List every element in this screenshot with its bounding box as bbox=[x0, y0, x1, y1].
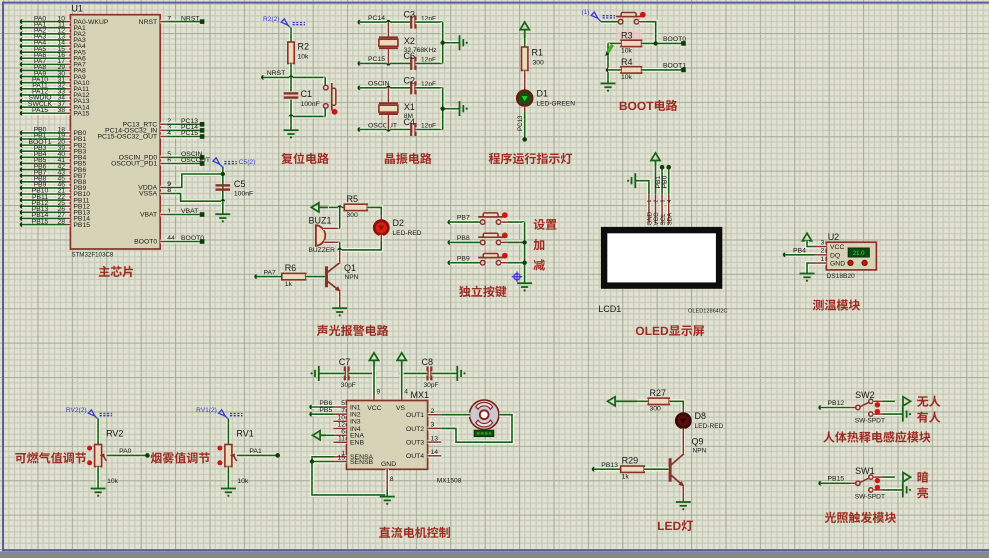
capacitor C3 bbox=[410, 16, 412, 29]
wire PB6 to IN1 bbox=[312, 405, 334, 409]
MX1 pin 3 (OUT2) bbox=[428, 427, 442, 431]
sensor U2 DS18B20 body bbox=[826, 242, 876, 270]
capacitor C5 bbox=[216, 184, 231, 186]
ground under U2 bbox=[800, 274, 815, 282]
svg-text:RV2: RV2 bbox=[106, 429, 123, 439]
svg-text:IN3: IN3 bbox=[350, 419, 361, 426]
svg-text:DQ: DQ bbox=[830, 252, 840, 259]
wire SW2 upper throw to power bbox=[873, 399, 883, 403]
node OSCOUT terminal bbox=[358, 127, 363, 132]
wire VSSA to C5 bottom bbox=[166, 194, 223, 202]
svg-text:BOOT0: BOOT0 bbox=[663, 36, 686, 43]
power arrow ENA bbox=[313, 431, 327, 440]
wire button 加 to bus bbox=[501, 241, 508, 245]
svg-text:VCC: VCC bbox=[367, 405, 381, 412]
power arrow VS bbox=[397, 353, 406, 367]
svg-text:OUT1: OUT1 bbox=[406, 412, 424, 419]
svg-text:PB15: PB15 bbox=[32, 218, 49, 225]
svg-text:RV1: RV1 bbox=[236, 429, 253, 439]
U1 pin 7 (NRST) bbox=[160, 20, 166, 24]
svg-text:R5: R5 bbox=[347, 194, 359, 204]
label reset circuit title bbox=[281, 153, 292, 164]
crystal X1 bbox=[387, 88, 391, 103]
wire power to R5 bbox=[329, 205, 344, 209]
U1 pin 41 (PB5) wire bbox=[20, 161, 25, 166]
svg-text:BUZ1: BUZ1 bbox=[309, 215, 332, 225]
potentiometer RV2 bbox=[95, 445, 102, 467]
svg-text:1: 1 bbox=[647, 200, 653, 203]
node PA7 terminal bbox=[254, 274, 259, 279]
node NRST horizontal wire bbox=[261, 75, 266, 80]
svg-text:PA1: PA1 bbox=[249, 448, 262, 455]
svg-text:Q9: Q9 bbox=[692, 437, 704, 447]
U1 pin 39 (PB3) wire bbox=[20, 149, 25, 154]
svg-text:D2: D2 bbox=[393, 218, 405, 228]
MX1 pin 8 GND bbox=[385, 469, 389, 489]
svg-text:C8: C8 bbox=[422, 357, 434, 367]
wire RV2 wiper to PA0 bbox=[107, 453, 148, 457]
U1 pin 38 (PA15) wire bbox=[20, 111, 25, 116]
U2 buttons bbox=[848, 260, 853, 265]
svg-text:OUT4: OUT4 bbox=[406, 453, 424, 460]
svg-text:R2: R2 bbox=[298, 42, 310, 52]
wire RV2 to ground bbox=[96, 467, 100, 489]
label 减 bbox=[533, 259, 544, 270]
label temperature title bbox=[813, 299, 824, 310]
U1 pin 22 (PB11) wire bbox=[20, 198, 25, 203]
U1 pin 29 (PA8) wire bbox=[20, 68, 25, 73]
svg-text:NRST: NRST bbox=[139, 19, 158, 26]
wire probe to RV2 bbox=[96, 419, 100, 445]
svg-text:OUT3: OUT3 bbox=[406, 440, 424, 447]
svg-text:8: 8 bbox=[167, 187, 171, 194]
diode D8 LED-RED off bbox=[681, 407, 685, 413]
svg-text:D1: D1 bbox=[537, 89, 549, 99]
MX1 pin 11 (ENB) bbox=[334, 440, 347, 444]
svg-text:VSSA: VSSA bbox=[139, 191, 158, 198]
wire D8 to Q9 collector bbox=[681, 429, 685, 454]
MX1 pin 2 (OUT1) bbox=[428, 413, 442, 417]
svg-text:300: 300 bbox=[533, 60, 545, 67]
wire SCL to PB1 terminal bbox=[660, 167, 664, 194]
wire buzzer top pin bbox=[323, 227, 340, 231]
wire R4 left bbox=[606, 43, 610, 83]
ground under Q1 bbox=[332, 308, 347, 316]
svg-text:SW-SPDT: SW-SPDT bbox=[855, 418, 885, 425]
svg-text:MX1508: MX1508 bbox=[437, 478, 462, 485]
label alarm circuit title bbox=[317, 325, 328, 336]
svg-text:BUZZER: BUZZER bbox=[309, 247, 336, 254]
wire PC15 row bbox=[360, 61, 411, 65]
MX1 pin 12 (IN4) bbox=[334, 427, 347, 431]
svg-text:10k: 10k bbox=[107, 478, 119, 485]
wire PB9 to button bbox=[450, 261, 480, 265]
svg-text:LED-RED: LED-RED bbox=[393, 230, 422, 237]
ground under RV1 bbox=[221, 489, 236, 497]
power arrow above U2 bbox=[802, 233, 811, 246]
svg-text:GND: GND bbox=[830, 261, 845, 268]
switch SW1 toggle dots bbox=[875, 478, 880, 483]
capacitor C4 bbox=[410, 123, 412, 136]
svg-text:LCD1: LCD1 bbox=[598, 304, 621, 314]
transistor Q9 bbox=[669, 458, 672, 482]
svg-text:C7: C7 bbox=[339, 357, 351, 367]
wire PB8 to button bbox=[450, 240, 480, 244]
svg-text:OUT2: OUT2 bbox=[406, 426, 424, 433]
wire PB13 to R29 bbox=[594, 467, 621, 471]
svg-text:STM32F103C8: STM32F103C8 bbox=[71, 251, 114, 258]
svg-text:PC15-OSC32_OUT: PC15-OSC32_OUT bbox=[98, 134, 158, 141]
reset push button bbox=[323, 77, 327, 85]
wire probe to boot button bbox=[601, 20, 618, 24]
crystal X2 bbox=[387, 22, 391, 36]
wire SDA to PB0 terminal bbox=[667, 167, 671, 194]
svg-text:NPN: NPN bbox=[345, 274, 359, 281]
svg-text:C5: C5 bbox=[234, 179, 246, 189]
wire button 减 to bus bbox=[501, 261, 508, 265]
U1 pin 3 (PC14-OSC32_IN) bbox=[160, 129, 166, 133]
svg-text:BOOT0: BOOT0 bbox=[134, 239, 157, 246]
wire VCC vertical bbox=[372, 367, 376, 396]
svg-text:10k: 10k bbox=[621, 74, 633, 81]
wire OUT2 motor loop bbox=[441, 415, 512, 443]
svg-text:1k: 1k bbox=[622, 474, 630, 481]
U2 pin 2 DQ bbox=[814, 253, 826, 257]
ground right of X1 bbox=[460, 101, 468, 116]
svg-text:ENA: ENA bbox=[350, 433, 364, 440]
wire PB15 to pole bbox=[821, 481, 849, 485]
MX1 pin 13 (OUT3) bbox=[428, 440, 442, 444]
ground left of LCD1 bbox=[627, 173, 635, 188]
U1 pin 27 (PB14) wire bbox=[20, 216, 25, 221]
U1 pin 44 (BOOT0) bbox=[160, 240, 166, 244]
svg-text:U2: U2 bbox=[828, 232, 840, 242]
svg-text:30pF: 30pF bbox=[341, 382, 356, 389]
svg-text:OSCOUT_PD1: OSCOUT_PD1 bbox=[111, 161, 157, 168]
motor label tag bbox=[474, 430, 494, 436]
voltage probe RV1(2) bbox=[219, 410, 243, 420]
MX1 pin 5 (IN1) bbox=[334, 405, 347, 409]
U1 pin 37 (SWCLK) wire bbox=[20, 105, 25, 110]
power arrow right SW2 bbox=[903, 397, 911, 406]
voltage probe (1) bbox=[591, 12, 615, 22]
power arrow VCC bbox=[369, 353, 378, 367]
U1 pin 4 (PC15-OSC32_OUT) bbox=[160, 135, 166, 139]
LCD1 pin 1 (GND) bbox=[647, 194, 651, 223]
svg-text:IN2: IN2 bbox=[350, 412, 361, 419]
svg-text:8M: 8M bbox=[404, 113, 413, 120]
node PB8 terminal bbox=[448, 240, 453, 245]
svg-text:R6: R6 bbox=[285, 263, 297, 273]
ground under MX1 bbox=[380, 497, 395, 505]
power arrow above VCC bbox=[651, 153, 660, 166]
svg-text:3: 3 bbox=[821, 239, 825, 246]
label SW1 title bbox=[825, 512, 836, 523]
label 设置 bbox=[534, 219, 545, 230]
wire BOOT1 net bbox=[642, 68, 684, 72]
svg-text:1: 1 bbox=[821, 256, 825, 263]
wire D1 to PC13 terminal bbox=[523, 107, 527, 112]
svg-text:C2: C2 bbox=[404, 75, 416, 85]
svg-text:2: 2 bbox=[821, 248, 825, 255]
svg-text:9: 9 bbox=[377, 389, 381, 396]
wire RV1 wiper to PA1 bbox=[237, 453, 278, 457]
node PB4 terminal bbox=[783, 253, 788, 258]
node PB12 terminal bbox=[818, 405, 823, 410]
label OLED title bbox=[636, 327, 644, 335]
wire to ground X2 bbox=[443, 41, 460, 45]
wire button 设置 to bus bbox=[501, 220, 508, 224]
U1 pin 20 (BOOT1) wire bbox=[20, 143, 25, 148]
wire SENSA SENSB to ground bbox=[312, 457, 387, 495]
svg-text:PB15: PB15 bbox=[73, 222, 90, 229]
ground left of C7 bbox=[311, 366, 319, 381]
node PB5 terminal bbox=[309, 412, 314, 417]
U1 pin 26 (PB13) wire bbox=[20, 210, 25, 215]
capacitor C2 bbox=[410, 81, 412, 94]
svg-text:DS18B20: DS18B20 bbox=[827, 273, 856, 280]
svg-text:X1: X1 bbox=[404, 102, 415, 112]
svg-text:2: 2 bbox=[654, 200, 660, 203]
U1 pin 32 (PA11) wire bbox=[20, 87, 25, 92]
power arrow left of R27 bbox=[608, 397, 638, 406]
switch SW2 toggle dots bbox=[875, 402, 880, 407]
wire PC14 row bbox=[360, 20, 411, 24]
svg-text:PA15: PA15 bbox=[73, 110, 89, 117]
wire C5 to ground bbox=[221, 201, 225, 214]
wire PB5 to IN2 bbox=[312, 412, 334, 416]
label pot title bbox=[151, 452, 162, 463]
U1 pin 2 (PC13_RTC) bbox=[160, 122, 166, 126]
svg-text:4: 4 bbox=[667, 200, 673, 203]
svg-text:R27: R27 bbox=[650, 388, 667, 398]
U1 pin 12 (PA2) wire bbox=[20, 32, 25, 37]
wire SW2 lower throw to ground bbox=[873, 412, 883, 416]
svg-text:LED-RED: LED-RED bbox=[695, 423, 724, 430]
svg-text:X2: X2 bbox=[404, 36, 415, 46]
switch SW1 lever and contacts bbox=[856, 475, 873, 492]
svg-text:BOOT1: BOOT1 bbox=[663, 62, 686, 69]
MX1 pin 10 (IN3) bbox=[334, 419, 347, 423]
diode D2 LED-RED bbox=[379, 215, 383, 221]
U1 pin 21 (PB10) wire bbox=[20, 192, 25, 197]
MX1 pin 6 (ENA) bbox=[334, 433, 347, 437]
svg-text:VS: VS bbox=[396, 405, 406, 412]
motor M1 bbox=[466, 413, 470, 417]
ground BOOT divider bbox=[601, 83, 616, 91]
svg-text:PA15: PA15 bbox=[32, 107, 48, 114]
U1 pin 42 (PB6) wire bbox=[20, 167, 25, 172]
ground right of X2 bbox=[460, 35, 468, 50]
wire RV1 to ground bbox=[226, 467, 230, 489]
U1 pin 25 (PB12) wire bbox=[20, 204, 25, 209]
svg-text:GND: GND bbox=[381, 461, 396, 468]
svg-text:10: 10 bbox=[337, 415, 345, 422]
power arrow left of R5 bbox=[311, 203, 328, 212]
svg-text:14: 14 bbox=[431, 449, 439, 456]
svg-text:VBAT: VBAT bbox=[140, 212, 157, 219]
U1 pin 40 (PB4) wire bbox=[20, 155, 25, 160]
wire PA7 to R6 bbox=[257, 275, 282, 279]
svg-text:C5(2): C5(2) bbox=[239, 159, 256, 166]
svg-text:2: 2 bbox=[431, 408, 435, 415]
wire BOOT0 net bbox=[642, 41, 684, 45]
node PB13 terminal bbox=[592, 467, 597, 472]
resistor R2 bbox=[288, 42, 294, 64]
svg-text:NRST: NRST bbox=[181, 15, 200, 22]
U1 pin 33 (PA12) wire bbox=[20, 93, 25, 98]
U1 pin 10 (PA0) wire bbox=[20, 19, 25, 24]
svg-text:PC15: PC15 bbox=[181, 130, 198, 137]
U1 pin 34 (SWDIO) wire bbox=[20, 99, 25, 104]
wire power to R1 bbox=[523, 38, 527, 47]
wire C8 to VS node bbox=[402, 371, 428, 375]
wire C7 left to ground bbox=[319, 371, 345, 375]
svg-text:Q1: Q1 bbox=[344, 263, 356, 273]
capacitor C1 bbox=[289, 77, 293, 91]
wire OSCOUT row bbox=[360, 128, 411, 132]
U2 display 21.0 bbox=[848, 248, 869, 257]
wire R5 to D2 bbox=[367, 207, 381, 214]
potentiometer RV1 bbox=[225, 445, 232, 467]
svg-text:30pF: 30pF bbox=[424, 382, 439, 389]
svg-text:7: 7 bbox=[341, 407, 345, 414]
label motor control title bbox=[379, 527, 390, 538]
U1 pin 15 (PA5) wire bbox=[20, 50, 25, 55]
U1 pin 31 (PA10) wire bbox=[20, 80, 25, 85]
label 亮 bbox=[917, 487, 928, 498]
wire PB12 to pole bbox=[821, 406, 849, 410]
wire SW1 upper throw to power bbox=[873, 475, 883, 479]
svg-text:MX1: MX1 bbox=[411, 390, 430, 400]
U1 pin 19 (PB1) wire bbox=[20, 137, 25, 142]
label buttons title bbox=[459, 286, 470, 297]
wire right vertical X1 bbox=[441, 88, 445, 130]
MX1 pin 1 (SENSA) bbox=[334, 455, 347, 459]
svg-text:SDA: SDA bbox=[666, 212, 673, 226]
wire buzzer bottom pin bbox=[324, 240, 340, 244]
svg-text:300: 300 bbox=[650, 405, 662, 412]
svg-text:6: 6 bbox=[341, 429, 345, 436]
svg-text:R1: R1 bbox=[532, 48, 544, 58]
MX1 pin 4 VS bbox=[400, 395, 404, 401]
U1 pin 6 (OSCOUT_PD1) bbox=[160, 162, 166, 166]
svg-text:SENSB: SENSB bbox=[350, 459, 374, 466]
wire PB7 to button bbox=[450, 220, 480, 224]
op-amp U1 microcontroller STM32F103C8 body bbox=[70, 15, 160, 249]
wire R1 to D1 bbox=[523, 71, 527, 91]
wire VCC pin to power bbox=[654, 161, 658, 194]
svg-text:21.0: 21.0 bbox=[853, 251, 865, 257]
svg-text:SW-SPDT: SW-SPDT bbox=[855, 493, 885, 500]
ground buttons bus bbox=[517, 283, 532, 291]
label pot title bbox=[15, 453, 26, 463]
push button 减 bbox=[478, 254, 503, 266]
ground under Q9 bbox=[676, 502, 691, 510]
U1 pin 16 (PA6) wire bbox=[20, 56, 25, 61]
svg-text:100nF: 100nF bbox=[234, 191, 253, 198]
wire power to VCC bbox=[807, 241, 814, 247]
svg-text:(1): (1) bbox=[581, 9, 589, 16]
voltage probe C5(2) bbox=[213, 158, 237, 168]
svg-text:4: 4 bbox=[404, 389, 408, 396]
label indicator title bbox=[489, 153, 500, 164]
svg-text:U1: U1 bbox=[71, 4, 83, 14]
ground under C5 bbox=[215, 214, 230, 222]
U1 pin 43 (PB7) wire bbox=[20, 173, 25, 178]
boot push button bbox=[616, 13, 641, 25]
highlight box R3 bbox=[617, 30, 643, 48]
voltage probe R2(2) bbox=[281, 19, 305, 29]
push button 加 bbox=[478, 233, 503, 245]
svg-text:10k: 10k bbox=[298, 54, 310, 61]
wire PB4 to DQ bbox=[785, 253, 814, 257]
svg-text:OSCOUT: OSCOUT bbox=[181, 157, 210, 164]
wire OUT1 to motor bbox=[441, 413, 470, 417]
wire R29 to Q9 base bbox=[644, 467, 669, 471]
ground right of C8 bbox=[457, 366, 465, 381]
voltage probe RV2(2) bbox=[88, 410, 112, 420]
wire OSCIN row bbox=[360, 86, 411, 90]
U1 pin 8 (VSSA) bbox=[160, 192, 166, 196]
U1 pin 9 (VDDA) bbox=[160, 186, 166, 190]
svg-text:5: 5 bbox=[341, 400, 345, 407]
label SW2 title bbox=[823, 431, 834, 442]
svg-text:28: 28 bbox=[57, 218, 65, 225]
U1 pin 11 (PA1) wire bbox=[20, 25, 25, 30]
label BOOT circuit title bbox=[620, 102, 627, 110]
svg-text:32.768KHz: 32.768KHz bbox=[404, 47, 437, 54]
U1 pin 13 (PA3) wire bbox=[20, 38, 25, 43]
svg-text:13: 13 bbox=[431, 435, 439, 442]
svg-text:10k: 10k bbox=[621, 47, 633, 54]
LCD1 pin 2 (VCC) bbox=[654, 194, 658, 223]
wire R2 to NRST node bbox=[289, 64, 293, 78]
label 暗 bbox=[918, 471, 929, 482]
svg-text:11: 11 bbox=[338, 436, 345, 443]
U1 pin 45 (PB8) wire bbox=[20, 179, 25, 184]
wire probe to R2 bbox=[289, 28, 293, 43]
svg-text:LED-GREEN: LED-GREEN bbox=[537, 101, 576, 108]
origin marker bbox=[512, 272, 522, 282]
svg-text:NPN: NPN bbox=[693, 448, 707, 455]
label 无人 bbox=[917, 396, 928, 407]
svg-text:300: 300 bbox=[347, 212, 359, 219]
ground right SW1 bbox=[903, 482, 911, 497]
wire GND pin to ground bbox=[807, 263, 814, 274]
wire right vertical X2 bbox=[441, 22, 445, 63]
MX1 pin 14 (OUT4) bbox=[428, 454, 442, 458]
wire C5 vertical bbox=[221, 167, 225, 202]
node PB7 terminal bbox=[448, 220, 453, 225]
U1 pin 14 (PA4) wire bbox=[20, 44, 25, 49]
U2 pin 3 VCC bbox=[814, 245, 826, 249]
svg-text:8: 8 bbox=[390, 476, 394, 483]
ground under RV2 bbox=[91, 489, 106, 497]
wire R27 to D8 bbox=[669, 401, 683, 407]
U1 pin 46 (PB9) wire bbox=[20, 186, 25, 191]
diode D1 LED-GREEN bbox=[517, 91, 532, 106]
MX1 pin 15 (SENSB) bbox=[334, 460, 347, 464]
svg-text:15: 15 bbox=[337, 455, 345, 462]
wire GND pin to side ground bbox=[635, 181, 649, 195]
svg-text:3: 3 bbox=[660, 200, 666, 203]
U1 pin 5 (OSCIN_PD0) bbox=[160, 156, 166, 160]
wire VDDA to C5 top bbox=[166, 174, 223, 188]
svg-text:ENB: ENB bbox=[350, 440, 364, 447]
wire probe to RV1 bbox=[226, 419, 230, 445]
wire C1 bottom to button bbox=[291, 114, 325, 118]
